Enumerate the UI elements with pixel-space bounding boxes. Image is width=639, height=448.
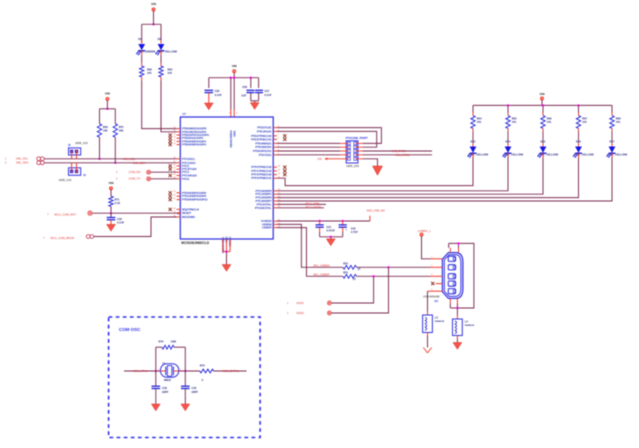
wire R63 to U7 pin PTB1 xyxy=(160,77,162,81)
wire J8 pin2 to SCL xyxy=(76,150,78,159)
USB pin5 stub xyxy=(428,290,443,292)
svg-text:3: 3 xyxy=(431,274,432,276)
svg-text:R68: R68 xyxy=(616,116,621,120)
svg-text:ESD1: ESD1 xyxy=(297,301,305,305)
svg-text:PTG2/KBIP6: PTG2/KBIP6 xyxy=(256,196,273,200)
svg-text:PTF5/TPM2CH1: PTF5/TPM2CH1 xyxy=(251,176,272,180)
svg-text:IRQ/TPMCLK: IRQ/TPMCLK xyxy=(182,207,199,211)
wire PTG0 to LED D14 xyxy=(277,152,508,191)
svg-text:D15: D15 xyxy=(541,139,546,143)
svg-text:7: 7 xyxy=(278,134,279,136)
svg-text:470: 470 xyxy=(147,71,152,75)
svg-text:D17: D17 xyxy=(610,139,615,143)
svg-text:PTG0/KBIP0: PTG0/KBIP0 xyxy=(256,189,273,193)
wire R69 to SCL bus xyxy=(99,137,101,159)
svg-text:22PF: 22PF xyxy=(162,390,169,394)
capacitor C31 0.47UF xyxy=(316,224,324,226)
svg-text:PTE3/TPM1CH1: PTE3/TPM1CH1 xyxy=(251,137,272,141)
svg-text:VDD1: VDD1 xyxy=(233,130,236,137)
svg-text:470: 470 xyxy=(582,120,587,124)
svg-text:FERRITE: FERRITE xyxy=(435,321,445,323)
svg-text:C32: C32 xyxy=(351,226,356,230)
ground (C27 C28) xyxy=(254,101,256,103)
ground (L4) xyxy=(453,343,462,350)
svg-text:PTC6: PTC6 xyxy=(182,177,190,181)
svg-text:R66: R66 xyxy=(547,116,552,120)
svg-text:5: 5 xyxy=(431,289,432,291)
wire D14 cathode xyxy=(507,153,509,157)
svg-text:MCU_COM_RST: MCU_COM_RST xyxy=(54,212,76,216)
svg-text:470: 470 xyxy=(616,120,621,124)
U7 left pins PTC group xyxy=(177,158,181,160)
wire VIN rail above U7 xyxy=(233,73,235,78)
svg-text:4MHZ: 4MHZ xyxy=(164,378,172,382)
svg-text:6: 6 xyxy=(278,138,279,140)
svg-text:USBDP: USBDP xyxy=(262,226,272,230)
svg-text:PTE0/TxD1: PTE0/TxD1 xyxy=(257,126,272,130)
svg-text:0.1UF: 0.1UF xyxy=(215,93,222,97)
svg-text:VIN: VIN xyxy=(108,181,113,185)
svg-text:0.47UF: 0.47UF xyxy=(326,229,335,233)
U7 right pins PTF group xyxy=(273,166,277,168)
wire C32 down xyxy=(342,227,344,232)
wire header pin5R to ground xyxy=(363,159,378,166)
wire PTF5 to LED D13 xyxy=(277,152,473,186)
section box COM OSC xyxy=(109,317,261,438)
svg-text:R69: R69 xyxy=(103,125,108,129)
svg-text:HDR_2X5: HDR_2X5 xyxy=(346,164,359,168)
svg-text:LED_GREEN: LED_GREEN xyxy=(138,50,156,54)
svg-text:MCU_EXTAL: MCU_EXTAL xyxy=(306,205,323,209)
resistor R71 5.1K xyxy=(109,196,113,206)
ground (USB caps) xyxy=(330,237,332,239)
wire +USB5V_J to USB pin1 xyxy=(422,236,431,259)
wire R74 loop xyxy=(155,347,157,371)
ground (header) xyxy=(373,166,383,175)
inductor L3 FERRITE xyxy=(423,315,433,333)
svg-text:PTF4/TPM2CH0: PTF4/TPM2CH0 xyxy=(251,173,272,177)
wire VIN to LED branch split xyxy=(153,11,155,24)
wire PTG4 XTAL stub xyxy=(277,203,326,205)
svg-text:C33: C33 xyxy=(162,386,167,390)
svg-text:COM_RX: COM_RX xyxy=(129,170,141,174)
wire R64 to D13 xyxy=(472,129,474,132)
wire C29 to ground xyxy=(110,220,112,225)
wire to C26 xyxy=(208,78,210,88)
svg-text:USB-MINIAB: USB-MINIAB xyxy=(423,294,439,298)
svg-text:LED_YELLOW: LED_YELLOW xyxy=(538,152,558,156)
svg-text:4.7UF: 4.7UF xyxy=(351,230,358,234)
svg-text:45: 45 xyxy=(173,174,175,176)
wire USBDN to R72 xyxy=(277,224,343,267)
wire SDA bus xyxy=(44,162,176,164)
svg-text:COM OSC: COM OSC xyxy=(119,327,141,332)
resistor R73 27 xyxy=(343,274,356,278)
U7 right pins USB group xyxy=(273,220,277,222)
svg-text:PTF0/TPM1CH2: PTF0/TPM1CH2 xyxy=(251,165,272,169)
wire VUSB33 net xyxy=(277,220,370,222)
wire R68 to D17 xyxy=(611,129,613,132)
wire R67 to D16 xyxy=(578,129,580,132)
wire D15 cathode xyxy=(542,153,544,157)
svg-text:VIN: VIN xyxy=(317,157,321,161)
wire VDDAD pin stub xyxy=(230,78,232,110)
svg-text:R65: R65 xyxy=(512,116,517,120)
svg-text:LED_YELLOW: LED_YELLOW xyxy=(157,50,177,54)
svg-text:MC9S08JM60CLD: MC9S08JM60CLD xyxy=(181,241,209,245)
U7 right pins PTE group xyxy=(273,127,277,129)
capacitor C29 0.1UF xyxy=(107,217,116,219)
wire R71 to RESET net xyxy=(110,207,112,214)
svg-text:R74: R74 xyxy=(159,340,164,344)
wire R73 to USB pin3 xyxy=(356,275,430,277)
capacitor C33 22PF xyxy=(152,385,161,387)
op IC U7 MC9S08JM60CLD body xyxy=(180,117,273,239)
wire C27/C28 to ground xyxy=(250,93,252,101)
wire to C33 xyxy=(155,371,157,386)
U7 right pins PTG group xyxy=(273,190,277,192)
resistor R69 10K xyxy=(97,124,101,138)
capacitor C27 0.1UF xyxy=(258,78,260,88)
svg-text:PTE7/SS1: PTE7/SS1 xyxy=(259,153,272,157)
wire USBDP to R73 xyxy=(277,228,343,277)
svg-text:34: 34 xyxy=(173,208,175,210)
wire to C32 xyxy=(342,221,344,225)
svg-text:HDR_1X2: HDR_1X2 xyxy=(59,178,72,182)
wire RESET to U7 xyxy=(111,212,178,214)
wire PTE5 to header left pin2 xyxy=(277,146,340,148)
resistor R70 10K xyxy=(113,124,117,138)
svg-text:D16: D16 xyxy=(576,139,581,143)
capacitor C34 22PF xyxy=(181,385,190,387)
wire PTE1 loop to header right pin2 xyxy=(277,131,377,147)
ground (C34) xyxy=(181,404,190,411)
svg-text:LED_YELLOW: LED_YELLOW xyxy=(468,152,488,156)
svg-text:HDR_1X2: HDR_1X2 xyxy=(75,141,88,145)
svg-text:3: 3 xyxy=(229,112,230,114)
svg-text:PTE2/TPM1CH0: PTE2/TPM1CH0 xyxy=(251,134,272,138)
wire VIN to R69/R70 xyxy=(106,100,108,108)
U7 left pins PTD group xyxy=(177,192,181,194)
U7 left pins IRQ RESET BKGD xyxy=(177,208,181,210)
ground (U7 VSS) xyxy=(222,265,231,272)
svg-text:1: 1 xyxy=(431,257,432,259)
svg-text:D2: D2 xyxy=(158,37,162,41)
svg-text:VDD_USB_IN0: VDD_USB_IN0 xyxy=(366,208,385,212)
svg-text:JM1_USBDN: JM1_USBDN xyxy=(313,263,330,267)
svg-text:R72: R72 xyxy=(343,262,348,266)
wire R66 to D15 xyxy=(542,129,544,132)
wire D17 cathode xyxy=(611,153,613,157)
svg-text:470: 470 xyxy=(477,120,482,124)
svg-text:C29: C29 xyxy=(117,217,122,221)
svg-text:10K: 10K xyxy=(119,129,124,133)
svg-text:R73: R73 xyxy=(343,271,348,275)
svg-text:VIN: VIN xyxy=(105,92,110,96)
svg-text:PTD0/KBIP2/ADP8: PTD0/KBIP2/ADP8 xyxy=(182,191,206,195)
svg-text:PTG4/XTAL: PTG4/XTAL xyxy=(257,202,272,206)
svg-text:FERRITE: FERRITE xyxy=(465,325,475,327)
svg-text:23: 23 xyxy=(173,133,175,135)
svg-text:PTD2/KBIP4/ADP10: PTD2/KBIP4/ADP10 xyxy=(182,198,208,202)
wire PTE7 to header left pin4 xyxy=(277,154,340,156)
svg-text:R67: R67 xyxy=(582,116,587,120)
wire D16 cathode xyxy=(578,153,580,157)
wire L3 to ground xyxy=(427,333,429,337)
svg-text:25: 25 xyxy=(173,140,175,142)
wire to D1 anode xyxy=(141,24,143,43)
wire crystal to R75 xyxy=(179,370,200,372)
wire to D2 anode xyxy=(160,24,162,43)
wire COM_TX to U7 xyxy=(151,178,177,180)
svg-text:45: 45 xyxy=(278,169,280,171)
svg-text:VIN: VIN xyxy=(539,92,544,96)
resistor R67 470 xyxy=(578,105,580,112)
wire MCU_EXTAL xyxy=(214,370,247,372)
svg-text:MCU_COM_BKGD: MCU_COM_BKGD xyxy=(50,236,74,240)
ground (C33) xyxy=(151,404,160,411)
svg-text:43: 43 xyxy=(173,168,175,170)
svg-text:D13: D13 xyxy=(471,139,476,143)
svg-text:PTG5/EXTAL: PTG5/EXTAL xyxy=(255,206,272,210)
wire VDD pin stub xyxy=(233,78,235,110)
wire MCU_XTAL xyxy=(124,370,160,372)
U7 left pins PTB group xyxy=(177,128,181,130)
wire USB shell bottom xyxy=(449,298,451,303)
wire SCL bus xyxy=(44,158,176,160)
svg-text:PTG3/KBIP7: PTG3/KBIP7 xyxy=(256,199,273,203)
wire VIN to LED rail xyxy=(541,100,543,105)
wire shell to L4 xyxy=(456,308,458,316)
svg-text:PTE4/MISO1: PTE4/MISO1 xyxy=(255,141,272,145)
ground (C29) xyxy=(107,224,116,231)
node VDD_USB_IN0 xyxy=(369,216,371,221)
svg-text:PTG1/KBIP1: PTG1/KBIP1 xyxy=(256,192,273,196)
wire caps join xyxy=(320,236,343,238)
resistor R62 470 xyxy=(140,66,144,77)
wire PTE0 loop to header right pin1 xyxy=(277,128,381,144)
wire R62 to U7 pin PTB0 xyxy=(141,77,143,81)
svg-text:D14: D14 xyxy=(506,139,511,143)
ground (C26) xyxy=(204,103,213,110)
wire BKGD to U7 xyxy=(94,217,177,237)
svg-text:VIN: VIN xyxy=(151,2,156,6)
svg-text:PTC0/SCL: PTC0/SCL xyxy=(182,157,196,161)
svg-text:JM1_SDA: JM1_SDA xyxy=(16,161,29,165)
wire USB shell top loop xyxy=(449,248,451,253)
capacitor C26 0.1UF xyxy=(205,89,214,91)
svg-text:JM1_RXD1: JM1_RXD1 xyxy=(395,153,410,157)
svg-text:C27: C27 xyxy=(264,89,269,93)
resistor R68 470 xyxy=(611,105,613,112)
svg-text:470: 470 xyxy=(512,120,517,124)
wire ESD2 to USBDN net xyxy=(331,267,388,313)
svg-text:PTXCOM_PORT: PTXCOM_PORT xyxy=(346,136,368,140)
USB pin4 no-connect xyxy=(436,283,443,285)
svg-text:LED_YELLOW: LED_YELLOW xyxy=(607,152,627,156)
svg-text:R62: R62 xyxy=(147,67,152,71)
wire J9 pin2 to SDA xyxy=(76,163,78,173)
inductor L4 FERRITE xyxy=(453,319,463,336)
wire L4 to ground xyxy=(456,336,458,340)
svg-text:R63: R63 xyxy=(168,67,173,71)
svg-text:44: 44 xyxy=(278,166,280,168)
svg-text:22: 22 xyxy=(173,130,175,132)
svg-text:MCU_XTAL: MCU_XTAL xyxy=(133,369,148,373)
svg-text:BKGD/MS: BKGD/MS xyxy=(182,215,195,219)
svg-text:PTD1/KBIP3/ADP9: PTD1/KBIP3/ADP9 xyxy=(182,194,206,198)
wire VSS to ground xyxy=(226,252,228,265)
wire J8 pin1 to SCL xyxy=(71,150,73,159)
wire PTG2 to LED D16 xyxy=(277,152,579,198)
wire COM_RX to U7 xyxy=(151,171,177,173)
svg-text:MCU_EXTAL: MCU_EXTAL xyxy=(222,369,239,373)
connector J9 HDR_1X2 xyxy=(69,168,81,176)
wire RESET net to C29 xyxy=(110,213,112,217)
svg-text:5.1K: 5.1K xyxy=(115,201,121,205)
svg-text:31: 31 xyxy=(173,198,175,200)
wire to C34 xyxy=(184,371,186,386)
svg-text:2: 2 xyxy=(431,265,432,267)
svg-text:C31: C31 xyxy=(326,225,331,229)
wire D2 cathode to R63 xyxy=(160,51,162,56)
svg-text:22PF: 22PF xyxy=(192,390,199,394)
svg-text:D1: D1 xyxy=(138,37,142,41)
wire J9 pin1 to SDA xyxy=(71,163,73,173)
wire header right pin4 JM1_RXD1 xyxy=(363,154,432,156)
svg-text:0.1UF: 0.1UF xyxy=(117,221,124,225)
svg-text:42: 42 xyxy=(173,164,175,166)
wire R72 to USB pin2 xyxy=(356,266,430,268)
wire PTE6 to header left pin3 xyxy=(277,150,340,152)
svg-text:0.1UF: 0.1UF xyxy=(264,93,271,97)
svg-text:COM_TX: COM_TX xyxy=(129,177,141,181)
svg-text:PTF1/TPM1CH3: PTF1/TPM1CH3 xyxy=(251,169,272,173)
svg-text:10K: 10K xyxy=(103,129,108,133)
resistor R66 470 xyxy=(542,105,544,112)
svg-text:PTE5/MOSI1: PTE5/MOSI1 xyxy=(255,145,272,149)
svg-text:10M: 10M xyxy=(171,340,177,344)
svg-text:C26: C26 xyxy=(215,89,220,93)
svg-text:470: 470 xyxy=(168,71,173,75)
svg-text:C34: C34 xyxy=(192,386,197,390)
connector J10 USB-MINIAB body xyxy=(442,253,463,299)
wire R65 to D14 xyxy=(507,129,509,132)
resistor R72 27 xyxy=(343,265,356,269)
svg-text:+USB5V_J: +USB5V_J xyxy=(417,229,431,233)
svg-text:PTE6/SPSCK1: PTE6/SPSCK1 xyxy=(253,149,272,153)
svg-text:30: 30 xyxy=(173,195,175,197)
wire D1 cathode to R62 xyxy=(141,51,143,56)
capacitor C32 4.7UF xyxy=(339,224,347,226)
svg-text:R70: R70 xyxy=(119,125,124,129)
wire ESD1 to USBDP net xyxy=(331,276,373,303)
wire C33 to ground xyxy=(155,389,157,405)
wire LED array rail xyxy=(473,104,612,106)
USB pin2 stub xyxy=(431,266,443,268)
svg-text:21: 21 xyxy=(173,127,175,129)
wire to C28 xyxy=(250,78,252,88)
wire PTG5 EXTAL stub xyxy=(277,207,324,209)
chassis ground (L3) xyxy=(423,348,427,353)
wire PTG3 to LED D17 xyxy=(277,152,612,202)
wire PTG1 to LED D15 xyxy=(277,152,543,195)
svg-text:24: 24 xyxy=(173,137,175,139)
USB pin1 stub xyxy=(431,258,443,260)
wire VIN to R71 xyxy=(110,190,112,196)
wire C34 to ground xyxy=(184,389,186,405)
resistor R64 470 xyxy=(472,105,474,112)
resistor R63 470 xyxy=(159,66,163,77)
wire C31 down xyxy=(319,227,321,232)
wire USB pin5 to L3 xyxy=(427,291,429,311)
svg-text:C28: C28 xyxy=(242,85,247,89)
resistor R65 470 xyxy=(507,105,509,112)
svg-text:ESD2: ESD2 xyxy=(297,311,305,315)
svg-text:R75: R75 xyxy=(200,364,205,368)
svg-text:U7: U7 xyxy=(182,112,186,116)
svg-text:VIN: VIN xyxy=(232,64,237,68)
svg-text:R71: R71 xyxy=(115,197,120,201)
svg-text:26: 26 xyxy=(173,143,175,145)
svg-text:LED_YELLOW: LED_YELLOW xyxy=(503,152,523,156)
wire D13 cathode xyxy=(472,153,474,157)
wire C26 to ground xyxy=(208,93,210,103)
svg-text:4: 4 xyxy=(236,112,237,114)
svg-text:46: 46 xyxy=(278,173,280,175)
wire R70 to SDA bus xyxy=(114,137,116,163)
svg-text:1: 1 xyxy=(158,369,159,371)
wire header right pin3 JM1_TXD1 xyxy=(363,150,432,152)
svg-text:R64: R64 xyxy=(477,116,482,120)
svg-text:LED_YELLOW: LED_YELLOW xyxy=(574,152,594,156)
wire PTE4 to header left pin1 xyxy=(277,142,340,144)
svg-text:470: 470 xyxy=(547,120,552,124)
svg-text:JM1_USBDP: JM1_USBDP xyxy=(313,272,330,276)
svg-text:JM1_SDA: JM1_SDA xyxy=(133,161,146,165)
svg-text:RESET: RESET xyxy=(182,211,191,215)
USB pin3 stub xyxy=(431,275,443,277)
svg-text:29: 29 xyxy=(173,191,175,193)
svg-text:PTE1/RxD1: PTE1/RxD1 xyxy=(257,129,272,133)
svg-text:1UF: 1UF xyxy=(241,94,246,98)
wire to C31 xyxy=(319,221,321,225)
capacitor C28 1UF xyxy=(246,89,254,91)
svg-text:J10: J10 xyxy=(434,300,439,303)
svg-text:PTB5/KBIP5/ADP5: PTB5/KBIP5/ADP5 xyxy=(182,143,206,147)
